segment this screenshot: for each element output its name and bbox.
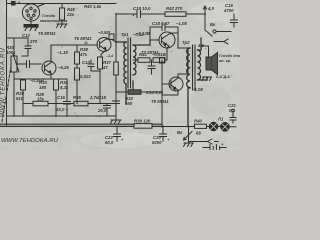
- resistor R41: [136, 58, 150, 63]
- label -0,91V: [152, 52, 166, 57]
- label R35 2,7k: [73, 95, 99, 100]
- svg-text:–1,19: –1,19: [57, 50, 68, 55]
- label Tr1: [121, 32, 129, 37]
- label R43 68: [194, 119, 202, 136]
- transistor T7: [159, 32, 175, 48]
- resistor R35: [74, 101, 116, 106]
- label R32 560: [125, 96, 133, 106]
- label -0,92V: [98, 30, 111, 35]
- svg-text:R39 120: R39 120: [134, 119, 151, 124]
- svg-text:68: 68: [196, 131, 201, 136]
- label R36 47: [102, 60, 111, 70]
- svg-text:R42 270: R42 270: [166, 6, 183, 11]
- svg-text:–0,12В: –0,12В: [136, 31, 150, 36]
- wire T7 emitter down: [167, 46, 169, 60]
- svg-text:С14 0,01: С14 0,01: [146, 90, 164, 95]
- label -0,12V left: [136, 31, 150, 36]
- transistor T8: [169, 77, 183, 91]
- label R39 120: [134, 119, 151, 124]
- svg-text:–6,25: –6,25: [58, 65, 69, 70]
- potentiometer R30: [11, 54, 22, 116]
- capacitor C21 right edge: [230, 109, 236, 123]
- label 4,5: [197, 43, 205, 48]
- label R37 8,2k: [60, 80, 69, 90]
- svg-text:С18 0,37: С18 0,37: [152, 21, 170, 26]
- top bus wire: [7, 3, 117, 5]
- resistor R43 inline: [114, 62, 119, 75]
- label R42 270: [166, 6, 183, 11]
- resistor R28: [23, 101, 74, 106]
- wire T5 collector up: [51, 45, 97, 62]
- resistor R33: [54, 79, 59, 116]
- transistor T6: [97, 38, 111, 52]
- resistor R38: [75, 45, 80, 68]
- svg-text:0,1ГД-6: 0,1ГД-6: [216, 75, 231, 79]
- capacitor C11: [22, 61, 41, 68]
- label C14 0,01: [146, 90, 164, 95]
- svg-text:Вк: Вк: [210, 22, 216, 27]
- label C16 22,0: [55, 95, 69, 112]
- label C22 50,0: [105, 135, 114, 145]
- svg-text:4,0: 4,0: [207, 6, 215, 11]
- resistor R45: [60, 4, 65, 25]
- svg-text:22,0 +: 22,0 +: [55, 107, 69, 112]
- resistor R32: [116, 90, 162, 95]
- capacitor C18: [150, 24, 178, 41]
- svg-text:R40: R40: [194, 119, 202, 124]
- svg-text:11: 11: [84, 41, 88, 45]
- wire T7 collector to Tr2: [169, 33, 188, 48]
- label T8 MP41: [151, 99, 169, 104]
- wire T7 base: [150, 39, 159, 41]
- svg-text:вн. гр.: вн. гр.: [219, 59, 231, 63]
- label Gr speaker: [216, 54, 241, 79]
- capacitor C19: [116, 11, 165, 18]
- svg-text:R35: R35: [73, 95, 81, 100]
- connector jack DIN socket: [22, 4, 39, 25]
- label Vk bottom: [177, 130, 183, 135]
- svg-text:С16: С16: [57, 95, 65, 100]
- svg-text:–0,92!: –0,92!: [98, 30, 111, 35]
- capacitor C15: [104, 104, 111, 117]
- svg-text:4,5: 4,5: [197, 43, 205, 48]
- label R29 510: [16, 91, 24, 101]
- label node 11: [84, 41, 88, 45]
- transformer Tr1 core: [128, 38, 131, 88]
- label R45 22k: [66, 7, 75, 17]
- svg-text:47: 47: [102, 65, 108, 70]
- resistor R40: [162, 124, 236, 128]
- ground under R45: [57, 24, 68, 28]
- svg-text:магнитофона: магнитофона: [40, 19, 67, 23]
- svg-text:560: 560: [125, 101, 133, 106]
- svg-text:–0,91В: –0,91В: [152, 52, 166, 57]
- resistor R37: [75, 68, 80, 104]
- wire T5 emitter down: [50, 75, 52, 80]
- label plus C22: [121, 137, 124, 142]
- wire T6 collector right: [106, 39, 116, 42]
- label -1,08 top: [176, 21, 187, 26]
- capacitor C16: [64, 79, 71, 116]
- svg-text:4700: 4700: [223, 8, 234, 13]
- wire jack to top bus: [38, 4, 44, 7]
- svg-text:С12: С12: [22, 33, 30, 38]
- transformer Tr1 secondary: [133, 40, 150, 92]
- resistor R42: [165, 12, 205, 16]
- ground under jack: [24, 25, 38, 31]
- label C13 0,022: [80, 60, 91, 79]
- svg-text:Т8 МП41: Т8 МП41: [151, 99, 169, 104]
- capacitor C22: [114, 126, 121, 141]
- label C15 20,0: [97, 95, 107, 113]
- transformer Tr2 secondary: [198, 38, 208, 80]
- svg-text:100к: 100к: [6, 50, 16, 55]
- svg-text:–1,08: –1,08: [176, 21, 187, 26]
- svg-text:R41: R41: [139, 52, 147, 57]
- ground mid bottom: [111, 116, 122, 124]
- label L1: [217, 117, 224, 122]
- ground under Tr2: [202, 77, 212, 81]
- svg-text:50,0: 50,0: [105, 140, 114, 145]
- wire T8 base: [162, 60, 171, 126]
- label C20 5000: [152, 135, 162, 145]
- svg-text:С15: С15: [98, 95, 106, 100]
- label R28 15k: [36, 92, 45, 102]
- bottom common wire: [7, 115, 117, 117]
- svg-text:–1,08: –1,08: [192, 87, 203, 92]
- label C21 0,1: [228, 103, 236, 113]
- wire Tr1 sec bottom join: [133, 59, 136, 61]
- label T7 MP41: [141, 50, 159, 55]
- label T5 MP41: [38, 31, 56, 36]
- svg-text:–1,4: –1,4: [106, 54, 113, 58]
- paper background: [0, 0, 240, 150]
- capacitor C13: [88, 60, 100, 71]
- capacitor C17 vertical: [113, 92, 120, 116]
- label -1,08 right: [192, 87, 203, 92]
- node a input pad: [12, 2, 23, 6]
- transformer Tr1 primary: [116, 42, 126, 104]
- headphone jack contacts: [205, 30, 231, 44]
- label R33 180: [39, 80, 47, 90]
- label -1,19: [57, 50, 68, 55]
- wire T6 emitter down: [101, 50, 106, 57]
- svg-text:Т5 МП41: Т5 МП41: [38, 31, 56, 36]
- svg-text:R40 1,5к: R40 1,5к: [84, 4, 102, 9]
- label -0,35V: [30, 78, 44, 83]
- test point arrow 4,0: [204, 6, 207, 14]
- label R38 47k: [79, 47, 88, 57]
- transformer Tr2 core: [193, 45, 196, 90]
- svg-text:510: 510: [16, 96, 24, 101]
- transformer Tr2 primary: [187, 48, 190, 127]
- label 4,0: [207, 6, 215, 11]
- bottom thick bus wire: [0, 123, 162, 125]
- label C18 0,37: [152, 21, 170, 26]
- svg-text:WWW.TEHDOKA.RU: WWW.TEHDOKA.RU: [0, 48, 7, 117]
- svg-text:270: 270: [29, 39, 38, 44]
- ground under switch: [184, 142, 194, 147]
- bottom thick rule second line: [0, 125, 162, 127]
- speaker Gr: [201, 46, 218, 75]
- resistor R29: [21, 80, 26, 116]
- capacitor C12: [22, 46, 31, 56]
- svg-text:47к: 47к: [79, 52, 88, 57]
- svg-text:Л1: Л1: [217, 117, 224, 122]
- resistor R39: [134, 124, 152, 129]
- resistor R36: [98, 57, 103, 104]
- label C19 10,0: [132, 6, 151, 18]
- frame left border: [6, 0, 8, 125]
- label -0,12: [133, 32, 144, 37]
- svg-text:0,1: 0,1: [229, 108, 236, 113]
- svg-text:С13: С13: [82, 60, 90, 65]
- node pad 2: [160, 58, 165, 64]
- label R40 1,5k: [84, 4, 102, 9]
- label Vk top: [210, 22, 216, 27]
- scan specks: [11, 8, 233, 146]
- label a pad: [18, 0, 21, 5]
- lamp L1: [209, 122, 218, 131]
- watermark vertical left edge: [0, 48, 7, 117]
- svg-text:180: 180: [39, 85, 47, 90]
- emitter row wire: [14, 78, 67, 80]
- watermark: [1, 138, 58, 144]
- label -6,25: [58, 65, 69, 70]
- label Tr2: [182, 40, 190, 45]
- switch Vk: [184, 127, 193, 142]
- svg-text:5000: 5000: [152, 140, 162, 145]
- connector to battery: [189, 139, 219, 144]
- svg-text:22к: 22к: [66, 12, 75, 17]
- svg-text:Вк: Вк: [177, 130, 183, 135]
- capacitor C14: [148, 60, 155, 74]
- svg-text:Гнездо: Гнездо: [42, 14, 56, 18]
- label R30 100k: [6, 45, 16, 55]
- battery B1: [203, 145, 226, 151]
- svg-text:8,2к: 8,2к: [60, 85, 69, 90]
- svg-text:Гнездо для: Гнездо для: [219, 54, 240, 58]
- label Gnezdo magnitofona: [40, 14, 67, 23]
- capacitor C15b top right: [231, 14, 238, 27]
- svg-text:Тр2: Тр2: [182, 40, 190, 45]
- wire input top: [7, 38, 29, 56]
- resistor R44: [153, 58, 167, 63]
- label T6 MP41: [74, 36, 92, 41]
- transistor T5: [42, 61, 56, 75]
- svg-text:0,022: 0,022: [80, 74, 91, 79]
- svg-text:20,0: 20,0: [97, 108, 107, 113]
- wire right side down: [204, 14, 206, 30]
- label -1,4V: [106, 54, 113, 58]
- lamp L2: [221, 123, 230, 132]
- vertical wire x118: [109, 14, 116, 104]
- svg-text:WWW.TEHDOKA.RU: WWW.TEHDOKA.RU: [1, 138, 58, 144]
- label C15 4700: [223, 3, 234, 13]
- pot link dashed: [2, 66, 11, 122]
- svg-text:Тр1: Тр1: [121, 32, 129, 37]
- label 9V battery: [221, 142, 224, 147]
- label C12 270: [22, 33, 38, 44]
- label plus C20: [167, 137, 170, 142]
- wire T8 emitter: [162, 90, 178, 95]
- svg-text:15к: 15к: [37, 97, 45, 102]
- wire T8 collector: [178, 48, 188, 78]
- label R41: [139, 52, 147, 57]
- capacitor C20: [160, 126, 167, 141]
- svg-text:С19 10,0: С19 10,0: [133, 6, 151, 11]
